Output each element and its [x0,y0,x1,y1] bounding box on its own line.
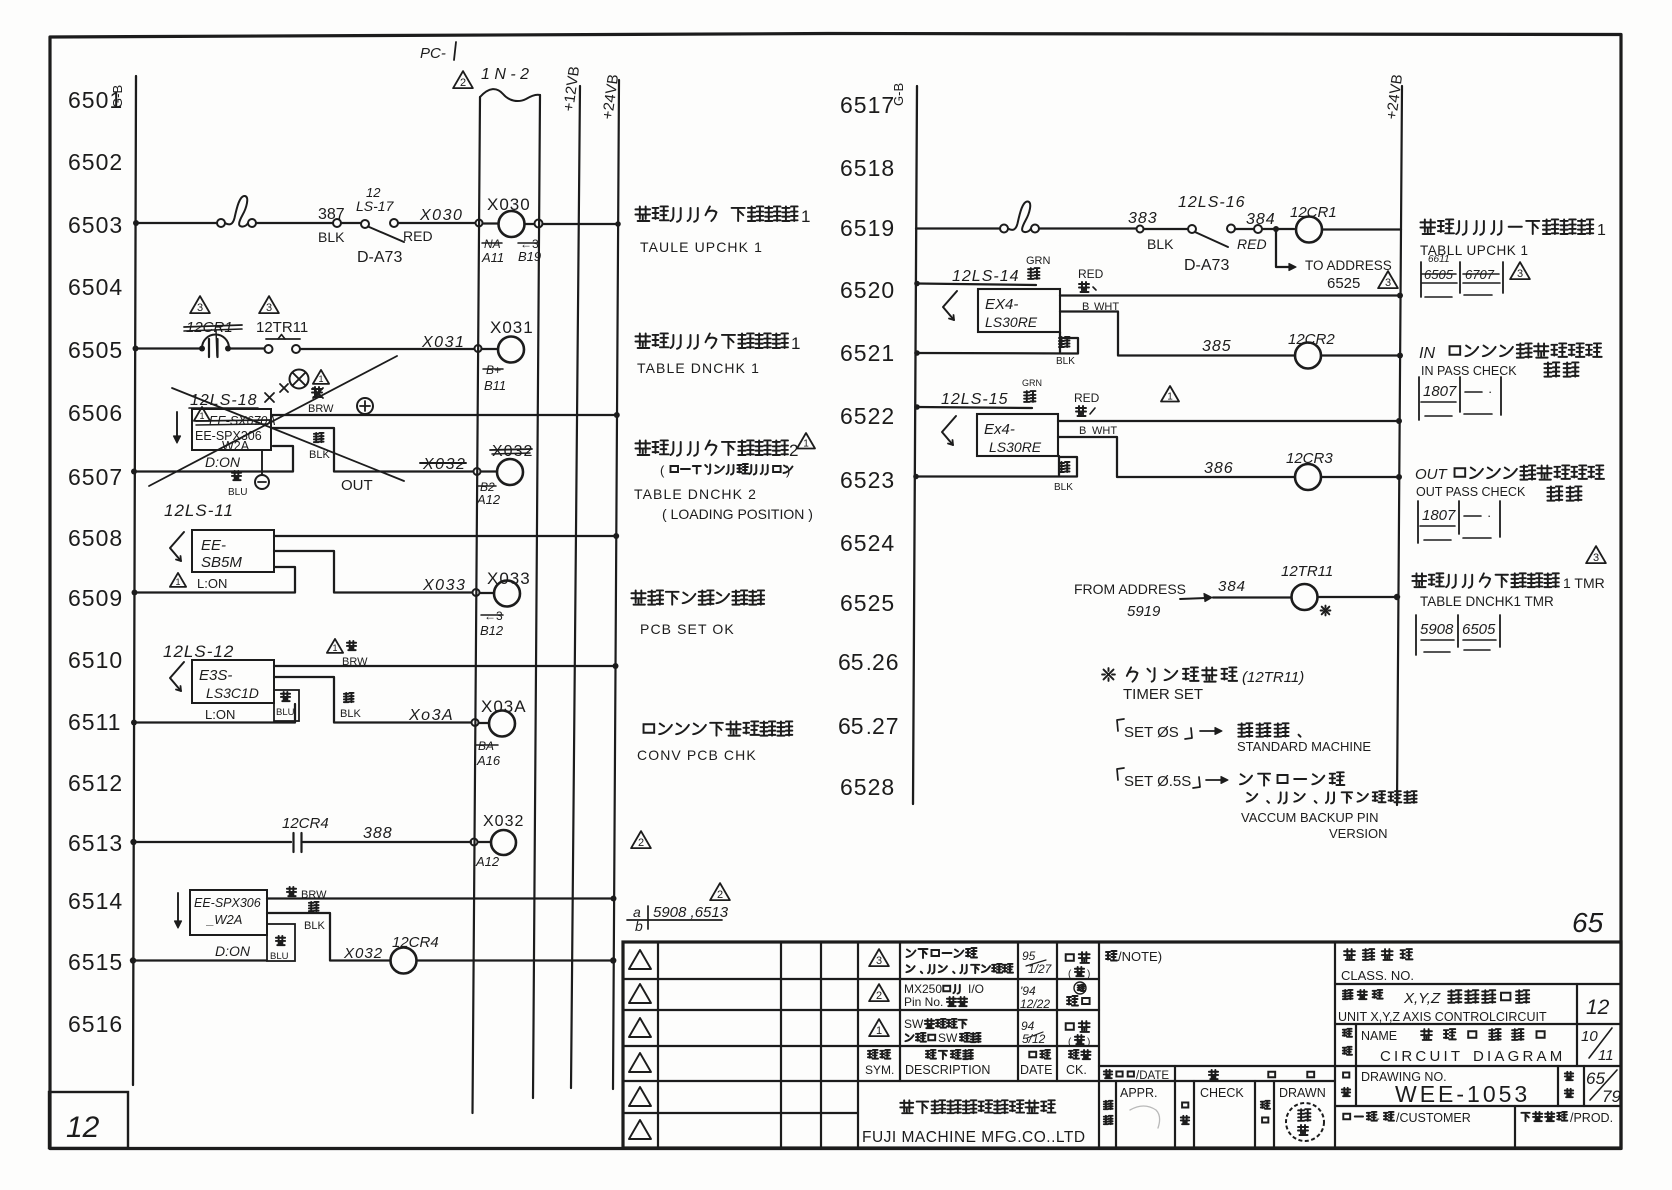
svg-text:TAULE UPCHK 1: TAULE UPCHK 1 [640,239,763,255]
sensor EE-SPX306 W2A box [190,890,267,935]
svg-text:/DATE: /DATE [1136,1070,1169,1082]
label RED wire [1237,236,1267,252]
ref box 6525 [1416,615,1500,655]
label OUT [341,477,373,494]
svg-text:2: 2 [789,441,798,460]
wire 387 segment [256,222,333,224]
wire rung 6519 from bus [916,227,1000,229]
svg-text:6511: 6511 [68,709,121,735]
label L:ON [197,576,227,591]
svg-text:6525: 6525 [840,590,895,616]
contact 12TR11 timer NO [256,319,308,353]
pin label A16 [476,739,501,768]
node rung number 6526 [838,649,900,675]
svg-text:3: 3 [1593,552,1599,564]
svg-text:6506: 6506 [68,400,123,426]
wire X030 to PC input [398,207,475,224]
svg-text:A16: A16 [476,753,501,768]
svg-text:APPR.: APPR. [1120,1086,1158,1100]
svg-text:12TR11: 12TR11 [1281,563,1333,580]
svg-text:6520: 6520 [840,277,895,303]
svg-text:1: 1 [1597,222,1606,239]
svg-text:X032: X032 [492,443,533,460]
customer row [1343,1106,1613,1148]
sensor EX4-LS30RE box 2 [977,414,1058,456]
BLU stub box [267,924,295,962]
description rung 6523 [1415,465,1604,483]
svg-text:65: 65 [1572,907,1604,938]
svg-text:E3S-: E3S- [199,667,232,684]
svg-text:2: 2 [876,990,882,1002]
chevron light-receive symbol [943,291,957,320]
svg-text:/CUSTOMER: /CUSTOMER [1396,1111,1471,1125]
svg-text:SYM.: SYM. [865,1063,894,1077]
svg-text:BLK: BLK [318,229,345,245]
arrow down sensor direction [174,412,181,443]
svg-text:X03A: X03A [481,697,527,716]
svg-text:UNIT X,Y,Z AXIS CONTROLCIRCUIT: UNIT X,Y,Z AXIS CONTROLCIRCUIT [1338,1010,1547,1024]
svg-text:BLK: BLK [340,708,361,720]
svg-text:IN: IN [1419,345,1435,362]
svg-text:'94: '94 [1020,984,1036,998]
svg-text:TIMER SET: TIMER SET [1123,686,1203,703]
svg-text:I/O: I/O [968,982,984,996]
svg-text:6521: 6521 [840,340,895,366]
svg-text:L:ON: L:ON [205,707,235,722]
triangle rev-3 over 12TR11 [259,296,279,314]
label BRW brown wire [308,387,334,415]
svg-text:( LOADING POSITION ): ( LOADING POSITION ) [662,506,813,522]
svg-text:X032: X032 [422,456,466,473]
terminal 387 [318,206,345,245]
label 384 [1218,578,1246,595]
node rung number 6503 [68,212,123,238]
note timer set value [1102,667,1304,686]
node rung number 6525 [840,590,895,616]
wire coil X030 to B pin [525,220,621,228]
svg-text:3: 3 [1517,268,1523,280]
wire rung 6509 from bus [132,567,296,596]
wire PC-1 IN-2 channel right rail [533,95,540,1098]
svg-text:FUJI MACHINE MFG.CO..LTD: FUJI MACHINE MFG.CO..LTD [862,1129,1086,1146]
svg-text:1: 1 [801,207,810,226]
svg-text:BLU: BLU [228,487,247,498]
svg-text:1: 1 [1167,392,1173,403]
svg-text:X031: X031 [490,318,534,337]
svg-text:CHECK: CHECK [1200,1086,1244,1100]
asterisk mark [1321,606,1331,616]
sensor 12LS-11 label [164,501,234,520]
pin label A12 [475,854,500,869]
label BRW [287,887,327,901]
svg-text:_W2A: _W2A [205,912,242,927]
svg-text:5/12: 5/12 [1022,1032,1046,1046]
svg-text:5919: 5919 [1127,603,1161,620]
svg-text:A11: A11 [481,250,504,265]
svg-text:DATE: DATE [1020,1063,1052,1077]
wire IN-2 wavy top break [480,89,540,101]
svg-text:): ) [1087,969,1090,980]
coil 12CR3 [1286,450,1333,490]
svg-text:RED: RED [1078,267,1104,281]
node input junction 6505 [475,345,499,352]
svg-text:1807: 1807 [1423,383,1457,400]
approval row cells [1116,942,1335,1148]
svg-text:10: 10 [1581,1028,1598,1045]
svg-text:12LS-18: 12LS-18 [190,392,258,409]
sheet number 12 box [49,1092,128,1148]
name row [1335,1024,1621,1066]
svg-text:B12: B12 [480,623,504,638]
wire WHT jog to rung 6523 [1058,437,1295,477]
coil X032 (deleted) [490,443,533,485]
pin label B11 [483,363,506,393]
svg-text:12: 12 [1586,996,1610,1019]
svg-text:1 N - 2: 1 N - 2 [481,66,529,83]
svg-text:BRW: BRW [308,403,334,415]
label D-A73 [357,249,402,266]
sensor 12LS-15 label [941,391,1009,408]
node input junction 6511 [472,719,490,726]
label L:ON [205,707,235,722]
label GRN green 2 [1022,378,1042,402]
svg-text:5908: 5908 [1420,621,1454,638]
svg-text:65: 65 [838,649,864,675]
triangle rev-1 on box [194,407,210,421]
svg-text:LS-17: LS-17 [356,198,395,214]
label D:ON [215,943,251,959]
svg-text:384: 384 [1246,211,1276,228]
svg-text:12TR11: 12TR11 [256,319,308,336]
wire coil 12CR3 to +24VB [1321,474,1402,480]
plus terminal symbol [357,398,373,414]
svg-text:12CR1: 12CR1 [1290,204,1337,221]
wire RED rung 6520 to +24VB [1060,293,1403,299]
limit switch 12LS-16 [1178,194,1246,247]
svg-text:DRAWN: DRAWN [1279,1086,1326,1100]
node +12VB rail left [560,65,583,1088]
svg-text:1: 1 [876,1025,882,1037]
svg-text:386: 386 [1204,460,1234,477]
arrow from address [1180,594,1212,602]
label RED red wire 2 [1074,391,1100,416]
label 386 [1204,460,1234,477]
sensor 12LS-18 box EE-SPX306 W2A [192,409,276,453]
triangle rev-1 floating [1161,386,1179,403]
svg-text:FROM ADDRESS: FROM ADDRESS [1074,581,1186,597]
connector plug symbol rung 6503 [217,196,256,227]
svg-text:383: 383 [1128,210,1158,227]
description rung 6519 [1420,219,1606,239]
svg-text:LS30RE: LS30RE [989,439,1042,455]
coil 12CR4 [391,934,439,974]
node PC-1 label [420,42,456,62]
connector plug symbol rung 6519 [1000,201,1039,232]
node rung number 6507 [68,464,123,490]
wire BRW rung 6514 to +24VB [267,896,617,902]
svg-text:65: 65 [838,713,864,739]
revision row 1 [869,1017,1090,1048]
svg-text:IN PASS CHECK: IN PASS CHECK [1421,364,1517,378]
label RED red wire [1078,267,1104,292]
label X033 wire [422,577,466,594]
svg-text:BLK: BLK [304,920,325,932]
triangle rev-2 mid page [631,831,651,849]
wire RED rung 6522 to +24VB [1058,418,1402,424]
svg-text:6519: 6519 [840,215,895,241]
svg-text:X032: X032 [483,813,524,830]
triangle rev-1 under box [170,573,186,587]
svg-text:NA: NA [484,237,501,251]
node G-B left bus [110,76,136,1085]
wire BLK to rung 6523 bus side [913,456,1077,479]
coil 12CR1 [1290,204,1337,243]
wire BRW rung 6506 to +24VB [271,412,620,418]
svg-text:B+: B+ [486,363,501,377]
label GRN green [1026,255,1051,279]
svg-text:PCB SET OK: PCB SET OK [640,621,735,637]
svg-text:6512: 6512 [68,770,123,796]
svg-text:CK.: CK. [1066,1063,1087,1077]
svg-text:6516: 6516 [68,1011,123,1037]
svg-text:L:ON: L:ON [197,576,227,591]
svg-text:.: . [866,717,872,739]
svg-text:1: 1 [803,439,809,450]
svg-text:D-A73: D-A73 [1184,257,1229,274]
svg-text:12: 12 [66,1111,100,1144]
svg-text:6504: 6504 [68,274,123,300]
triangle rev-3 at 6519 desc [1510,262,1530,280]
big deletion X over 12LS-18 [149,356,404,486]
label FROM ADDRESS 5919 [1074,581,1186,620]
svg-text:3: 3 [197,302,203,314]
wire X031 to PC input [300,334,474,351]
deleted cross marks [265,384,323,402]
wire coil 12CR2 to +24VB [1321,353,1403,359]
node rung number 6506 [68,400,123,426]
sensor E3S-LS3C1D box [192,660,274,703]
triangle rev-2 note [710,883,730,901]
sensor EX4-LS30RE box [978,289,1060,332]
node rung number 6518 [840,155,895,181]
svg-text:-: - [1376,1113,1380,1125]
svg-text:6501: 6501 [68,87,123,113]
node input junction 6507 [474,468,498,475]
svg-text:TO ADDRESS: TO ADDRESS [1305,258,1392,273]
svg-text:26: 26 [872,649,900,675]
svg-text:STANDARD MACHINE: STANDARD MACHINE [1237,739,1371,754]
svg-text:D:ON: D:ON [215,943,251,959]
svg-text:6514: 6514 [68,888,123,914]
description rung 6511 [644,721,793,735]
wire BLK to rung 6521 bus side [914,332,1078,356]
svg-text:X030: X030 [419,207,463,224]
note SET 0S standard [1117,719,1301,741]
unit row [1335,984,1621,1024]
svg-text:3: 3 [1385,277,1391,289]
label X032 deleted wire [420,456,466,473]
svg-text:D-A73: D-A73 [357,249,402,266]
node rung number 6522 [840,403,895,429]
wire BLK jog to rung 6515 [267,913,390,961]
title block grid left part [623,942,1099,1148]
description rung 6525 [1412,573,1604,591]
svg-text:6528: 6528 [840,774,895,800]
node input junction 6509 [473,589,495,596]
pin label B12 [480,609,504,638]
node +24VB rail right [1383,73,1406,805]
svg-text:12LS-15: 12LS-15 [941,391,1009,408]
svg-text:X030: X030 [487,195,531,214]
svg-text:Pin No.: Pin No. [904,995,943,1009]
label BLK black wire [1056,337,1075,367]
date row [1099,1066,1335,1082]
svg-text:6505: 6505 [68,337,123,363]
svg-text:RED: RED [1237,236,1267,252]
svg-text:RED: RED [403,228,433,244]
svg-text:BLK: BLK [1054,482,1073,493]
coil X031 [490,318,534,363]
svg-text:X033: X033 [422,577,466,594]
label B WHT white wire [1082,301,1119,313]
coil X033 [487,569,531,607]
node rung number 6505 [68,337,123,363]
node rung number 6517 [840,92,895,118]
wire rung 6507 from bus [131,446,293,475]
svg-text:6502: 6502 [68,149,123,175]
svg-text:GRN: GRN [1026,255,1051,267]
svg-text:6525: 6525 [1327,275,1360,292]
wire 383 segment [1039,227,1136,229]
svg-text:3: 3 [876,955,882,967]
ref box 6521 [1419,377,1501,420]
svg-text:EX4-: EX4- [985,296,1018,313]
svg-text:1: 1 [791,334,800,353]
svg-text:MX250: MX250 [904,982,942,996]
limit switch 12LS-17 [356,185,404,242]
label BLK black wire 2 [1054,462,1073,493]
node rung number 6528 [840,774,895,800]
wire coil to +24VB [417,957,617,963]
node rung number 6523 [840,467,895,493]
svg-text:VACCUM BACKUP PIN: VACCUM BACKUP PIN [1241,810,1379,825]
revision triangles column [629,950,651,1139]
svg-text:12LS-16: 12LS-16 [1178,194,1246,211]
node rung number 6509 [68,585,123,611]
wire 388 [303,825,471,842]
triangle rev-3 over 12CR1 [190,296,210,314]
node rung number 6514 [68,888,123,914]
svg-text:6513: 6513 [68,830,123,856]
svg-text:X033: X033 [487,569,531,588]
svg-text:5908 ,6513: 5908 ,6513 [653,904,729,921]
svg-text:G-B: G-B [891,83,906,106]
svg-text:PC-: PC- [420,45,446,62]
svg-text:): ) [786,463,790,478]
wire rung 6520 from bus [914,281,1036,287]
node IN-2 label [481,66,529,83]
label BLK [304,902,325,932]
svg-text:X031: X031 [421,334,465,351]
svg-text:12CR3: 12CR3 [1286,450,1333,467]
svg-text:LS3C1D: LS3C1D [206,685,259,701]
svg-text:12CR4: 12CR4 [282,815,329,832]
svg-text:2: 2 [460,77,466,89]
svg-text:←3: ←3 [484,609,503,623]
wire to coil 12TR11 [1213,596,1291,598]
drawing no row [1335,1066,1621,1107]
svg-text:WEE-1053: WEE-1053 [1395,1081,1530,1107]
node rung number 6521 [840,340,895,366]
svg-text:BA: BA [478,739,494,753]
triangle rev-2 near IN-2 [453,71,473,89]
svg-text:1: 1 [318,374,323,384]
company name [900,1100,1055,1113]
coil 12TR11 [1281,563,1333,610]
node rung number 6511 [68,709,121,735]
svg-text:6524: 6524 [840,530,895,556]
node rung number 6520 [840,277,895,303]
chevron light-receive symbol [170,532,184,561]
svg-text:BLU: BLU [276,707,295,718]
svg-text:SW: SW [938,1031,958,1045]
contact 12CR4 [282,815,329,852]
ref box 6523 [1418,501,1500,543]
svg-text:384: 384 [1218,578,1246,595]
svg-text:OUT PASS CHECK: OUT PASS CHECK [1416,485,1526,499]
svg-text:2: 2 [638,837,644,849]
node rung number 6527 [838,713,900,739]
svg-text:3: 3 [266,302,272,314]
svg-text:X,Y,Z: X,Y,Z [1403,990,1441,1007]
svg-text:DIAGRAM: DIAGRAM [1473,1048,1565,1065]
svg-text:BLK: BLK [1056,356,1075,367]
label X03A wire [408,707,454,724]
svg-text:12/22: 12/22 [1020,997,1050,1011]
svg-text:6507: 6507 [68,464,123,490]
svg-text:·: · [1488,384,1492,399]
wire rung 6505 from bus [133,346,201,352]
revision row 2 [869,982,1090,1011]
svg-text:EE-SPX306: EE-SPX306 [194,896,261,910]
svg-text:6505: 6505 [1462,621,1496,638]
node rung number 6501 [68,87,123,113]
label BLU blue wire [228,471,247,498]
label BLK black wire [309,433,330,461]
svg-text:/PROD.: /PROD. [1570,1111,1613,1125]
svg-text:BLK: BLK [1147,236,1174,252]
svg-text:CLASS. NO.: CLASS. NO. [1341,968,1414,983]
note a/b 5908,6513 [627,904,729,934]
svg-text:BRW: BRW [342,656,368,668]
wire BLK jog to coil X032 [271,428,473,472]
svg-text:TABLE DNCHK 2: TABLE DNCHK 2 [634,486,757,502]
node rung number 6512 [68,770,123,796]
svg-text:2: 2 [717,889,723,901]
svg-text:SET ØS: SET ØS [1124,724,1179,741]
coil X030 [487,195,531,237]
node rung number 6516 [68,1011,123,1037]
svg-text:12CR2: 12CR2 [1288,331,1335,348]
wire rung 6515 from bus [130,957,267,963]
svg-text:B19: B19 [518,249,541,264]
svg-text:CONV PCB CHK: CONV PCB CHK [637,747,757,763]
svg-text:A12: A12 [475,854,500,869]
svg-text:1: 1 [332,643,337,653]
svg-text:79: 79 [1602,1087,1621,1106]
label X032 wire [343,945,383,962]
node input junction 6503 [476,220,483,227]
